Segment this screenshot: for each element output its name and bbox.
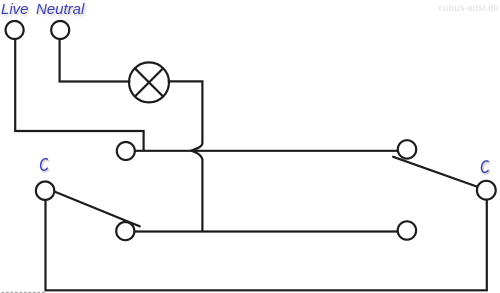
label Neutral — [36, 1, 84, 18]
terminal Neutral — [51, 21, 69, 39]
terminal Live — [6, 21, 24, 39]
wire live: down, right, down to top switch wire — [15, 39, 143, 150]
cropped dots bottom-left — [2, 291, 44, 293]
switch blade right (L1 to C) — [393, 157, 477, 187]
terminal L2 right switch — [398, 221, 416, 239]
terminal L1 left switch — [117, 142, 135, 160]
label Live — [1, 1, 29, 18]
terminal L1 right switch — [398, 140, 416, 158]
label C right (handwritten) — [482, 161, 490, 174]
wire lamp to bottom strap, with hop over top strap — [169, 81, 203, 230]
wire bottom strap (L2-L2) — [135, 230, 396, 232]
label C left (handwritten) — [41, 159, 49, 172]
wire top strap (L1-L1) — [135, 150, 397, 152]
switch blade left (C to L2) — [55, 192, 140, 227]
watermark cubus-adsl.dk — [438, 3, 499, 13]
wire common rail C-to-C along bottom — [46, 200, 487, 290]
wire neutral: down then right to lamp — [60, 39, 130, 81]
terminal C left switch — [36, 182, 54, 200]
terminal L2 left switch — [116, 222, 134, 240]
terminal C right switch — [477, 181, 496, 200]
lamp E1 — [129, 62, 169, 102]
